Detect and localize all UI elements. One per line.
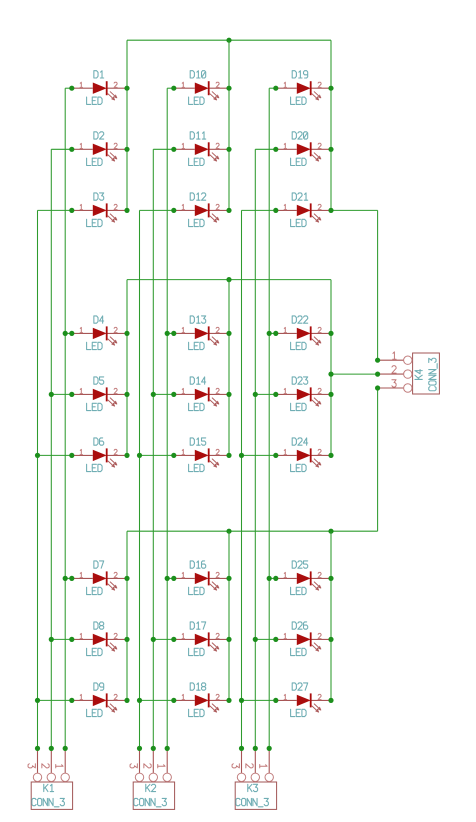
value LED of D3 [87,219,103,226]
wire anode net K1 pin1 [65,88,72,748]
junction anode net K2 pin3 low [137,698,142,703]
LED D20 [276,142,331,161]
pin 2 of D21 [318,204,321,209]
pin dot anode D7 [69,576,74,581]
label D4 [94,316,104,323]
pin dot cathode D14 [226,392,231,397]
pin 2 of D19 [318,82,321,87]
LED D8 [72,632,127,651]
wire dot K2 pin 1 [165,746,170,751]
label D6 [94,438,104,445]
LED D7 [72,571,127,590]
pin 1 of D12 [182,204,184,209]
junction anode net K1 pin3 low [35,698,40,703]
pin 1 of D27 [284,694,286,699]
pin 1 of D25 [284,572,286,577]
pin number 2 of K4 [392,366,396,373]
pin dot anode D24 [273,453,278,458]
pin dot anode D5 [69,392,74,397]
pin dot cathode D7 [124,576,129,581]
wire cathode bus col1 layer3 [126,531,128,700]
LED D3 [72,203,127,222]
pin 3 of K1 [33,748,41,781]
pin dot anode D4 [69,331,74,336]
pin 2 of D10 [216,82,219,87]
LED D27 [276,693,331,712]
value LED of D25 [291,587,307,594]
pin dot anode D27 [273,698,278,703]
value CONN_3 of K2 [134,798,166,806]
wire anode net K2 pin1 [167,88,174,748]
pin dot cathode D24 [328,453,333,458]
value LED of D1 [87,97,103,104]
label K2 [146,784,156,791]
junction anode net K1 pin2 mid [49,392,54,397]
LED D1 [72,81,127,100]
junction anode net K1 pin1 mid [63,331,68,336]
LED D22 [276,326,331,345]
junction layer-1 bus / column-2 [226,38,231,43]
pin number 3 of K3 [232,764,239,768]
LED D13 [174,326,229,345]
pin dot cathode D12 [226,208,231,213]
label D11 [190,132,206,139]
value LED of D15 [189,464,205,471]
pin 1 of D17 [182,633,184,638]
pin dot cathode D17 [226,637,231,642]
pin 1 of D7 [80,572,82,577]
LED D14 [174,387,229,406]
value LED of D21 [291,219,307,226]
LED D15 [174,448,229,467]
wire dot K1 pin 1 [63,746,68,751]
value LED of D5 [87,403,103,410]
LED D19 [276,81,331,100]
wire layer-2 cathode bus [127,279,331,281]
wire anode net K3 pin1 [269,88,276,748]
junction anode net K3 pin2 low [253,637,258,642]
junction anode net K2 pin1 low [165,576,170,581]
wire layer-1 cathode bus [127,39,331,41]
pin 2 of D12 [216,204,219,209]
label D1 [94,71,104,78]
label D15 [190,438,206,445]
pin dot anode D6 [69,453,74,458]
value LED of D19 [291,97,307,104]
label D27 [292,683,308,690]
pin 1 of K3 [265,748,273,781]
LED D21 [276,203,331,222]
wire anode net K1 pin2 [51,149,72,748]
LED D18 [174,693,229,712]
pin 3 of K2 [135,748,143,781]
pin dot cathode D27 [328,698,333,703]
label D21 [292,193,308,200]
label D22 [292,316,308,323]
junction layer-2 bus / column-2 [226,277,231,282]
wire dot K2 pin 2 [151,746,156,751]
LED D9 [72,693,127,712]
wire anode net K3 pin3 [242,210,276,748]
pin 1 of D23 [284,388,286,393]
pin dot cathode D20 [328,147,333,152]
pin 2 of D1 [114,82,117,87]
value LED of D7 [87,587,103,594]
pin 1 of D14 [182,388,184,393]
value LED of D8 [87,648,103,655]
pin dot cathode D4 [124,331,129,336]
pin 3 of K4 [378,384,412,392]
pin dot cathode D2 [124,147,129,152]
pin 1 of D13 [182,327,184,332]
value LED of D12 [189,219,205,226]
wire cathode bus col1 layer1 [126,40,128,210]
junction anode net K2 pin2 mid [151,392,156,397]
value LED of D17 [189,648,205,655]
pin dot anode D8 [69,637,74,642]
label D13 [190,316,206,323]
pin number 1 of K2 [158,765,165,768]
pin 1 of D16 [182,572,184,577]
LED D2 [72,142,127,161]
value LED of D23 [291,403,307,410]
pin dot anode D23 [273,392,278,397]
junction anode net K3 pin3 mid [239,453,244,458]
pin dot cathode D13 [226,331,231,336]
pin dot cathode D9 [124,698,129,703]
pin dot cathode D3 [124,208,129,213]
pin 2 of D4 [114,327,117,332]
value LED of D2 [87,158,103,165]
junction layer-2 branch [328,372,333,377]
wire layer-2 to K4 pin2 [331,373,378,375]
pin dot cathode D11 [226,147,231,152]
pin dot cathode D10 [226,86,231,91]
pin 1 of D10 [182,82,184,87]
pin dot cathode D25 [328,576,333,581]
pin 1 of D11 [182,143,184,148]
pin dot cathode D23 [328,392,333,397]
junction anode net K1 pin2 low [49,637,54,642]
pin 1 of D19 [284,82,286,87]
value LED of D4 [87,342,103,349]
wire anode net K1 pin3 [38,210,72,748]
pin 2 of D25 [318,572,321,577]
wire cathode bus col2 layer3 [228,531,230,700]
value LED of D18 [189,709,205,716]
label D18 [190,683,206,690]
label D16 [190,561,206,568]
pin 2 of D17 [216,633,219,638]
pin 2 of D16 [216,572,219,577]
LED D25 [276,571,331,590]
LED D11 [174,142,229,161]
wire dot K3 pin 2 [253,746,258,751]
LED D26 [276,632,331,651]
value LED of D26 [291,648,307,655]
pin dot anode D18 [171,698,176,703]
label D12 [190,193,206,200]
pin number 1 of K3 [260,765,267,768]
pin 1 of D15 [182,449,184,454]
pin dot cathode D22 [328,331,333,336]
value LED of D20 [291,158,307,165]
label D25 [292,561,308,568]
LED D4 [72,326,127,345]
LED D16 [174,571,229,590]
junction anode net K1 pin1 low [63,576,68,581]
label D24 [292,438,308,445]
wire anode net K2 pin3 [140,210,174,748]
pin dot cathode D5 [124,392,129,397]
LED D10 [174,81,229,100]
pin 1 of K1 [61,748,69,781]
label D23 [292,377,308,384]
value LED of D11 [189,158,205,165]
wire layer-1 to K4 pin1 [331,210,378,360]
wire dot K4 pin 3 [375,385,380,390]
pin dot cathode D1 [124,86,129,91]
LED D5 [72,387,127,406]
connector K1 [31,782,72,809]
pin dot anode D16 [171,576,176,581]
pin 1 of D21 [284,204,286,209]
value LED of D13 [189,342,205,349]
pin dot anode D15 [171,453,176,458]
pin dot anode D11 [171,147,176,152]
pin 1 of D18 [182,694,184,699]
pin 2 of D7 [114,572,117,577]
pin 1 of D1 [80,82,82,87]
pin dot anode D21 [273,208,278,213]
label D7 [94,561,104,568]
value LED of D22 [291,342,307,349]
wire cathode bus col2 layer2 [228,280,230,456]
pin 2 of K4 [378,370,412,378]
pin 1 of D24 [284,449,286,454]
pin 3 of K3 [237,748,245,781]
pin dot anode D12 [171,208,176,213]
junction anode net K2 pin3 mid [137,453,142,458]
label D9 [94,683,104,690]
connector K2 [133,782,174,809]
pin dot cathode D19 [328,86,333,91]
pin 1 of D2 [80,143,82,148]
pin 2 of D15 [216,449,219,454]
wire dot K4 pin 1 [375,358,380,363]
pin dot anode D2 [69,147,74,152]
value LED of D10 [189,97,205,104]
label D17 [190,622,206,629]
value LED of D14 [189,403,205,410]
wire cathode bus col1 layer2 [126,280,128,456]
junction layer-3 bus / column-2 [226,529,231,534]
pin number 3 of K4 [392,380,396,387]
label D26 [292,622,308,629]
label D10 [190,71,206,78]
label D14 [190,377,206,384]
pin 2 of D18 [216,694,219,699]
LED D17 [174,632,229,651]
pin 1 of K4 [378,356,412,364]
pin number 3 of K1 [28,764,35,768]
pin 1 of D4 [80,327,82,332]
wire dot K2 pin 3 [137,746,142,751]
wire dot K3 pin 3 [239,746,244,751]
value LED of D9 [87,709,103,716]
pin number 2 of K2 [144,764,151,768]
pin dot anode D22 [273,331,278,336]
pin 2 of K2 [149,748,157,781]
pin dot cathode D6 [124,453,129,458]
label K4 [415,370,422,380]
pin 2 of D22 [318,327,321,332]
pin number 3 of K2 [130,764,137,768]
wire layer-3 cathode bus [127,530,378,532]
pin 2 of D26 [318,633,321,638]
LED D24 [276,448,331,467]
pin 2 of K1 [47,748,55,781]
junction layer-3 bus / column-3 [328,529,333,534]
wire cathode bus col3 layer1 [330,40,332,210]
pin dot anode D17 [171,637,176,642]
pin dot anode D20 [273,147,278,152]
pin dot anode D10 [171,86,176,91]
pin 2 of D27 [318,694,321,699]
wire dot K1 pin 2 [49,746,54,751]
pin dot cathode D26 [328,637,333,642]
pin dot anode D26 [273,637,278,642]
pin dot anode D25 [273,576,278,581]
pin dot anode D19 [273,86,278,91]
junction anode net K3 pin1 mid [267,331,272,336]
junction anode net K2 pin2 low [151,637,156,642]
label D5 [94,377,104,384]
pin number 1 of K1 [56,765,63,768]
connector K3 [235,782,276,809]
pin number 2 of K1 [42,764,49,768]
pin 1 of D6 [80,449,82,454]
pin 1 of K2 [163,748,171,781]
value LED of D27 [291,709,307,716]
pin dot anode D14 [171,392,176,397]
label K3 [248,784,258,791]
pin dot cathode D18 [226,698,231,703]
pin 1 of D3 [80,204,82,209]
label K1 [44,784,54,791]
value CONN_3 of K3 [236,798,268,806]
wire dot K3 pin 1 [267,746,272,751]
junction anode net K3 pin3 low [239,698,244,703]
pin 2 of D2 [114,143,117,148]
label D3 [94,193,104,200]
pin 1 of D26 [284,633,286,638]
connector K4 [413,353,440,394]
pin 1 of D22 [284,327,286,332]
wire cathode bus col3 layer3 [330,531,332,700]
pin 2 of D23 [318,388,321,393]
wire dot K4 pin 2 [375,372,380,377]
pin number 1 of K4 [393,352,396,359]
value LED of D24 [291,464,307,471]
pin dot anode D3 [69,208,74,213]
pin dot anode D9 [69,698,74,703]
pin 2 of K3 [251,748,259,781]
pin 1 of D9 [80,694,82,699]
junction anode net K1 pin3 mid [35,453,40,458]
pin dot cathode D16 [226,576,231,581]
pin 2 of D9 [114,694,117,699]
pin 2 of D11 [216,143,219,148]
pin 2 of D6 [114,449,117,454]
LED D6 [72,448,127,467]
pin dot anode D13 [171,331,176,336]
wire anode net K3 pin2 [255,149,275,748]
wire layer-3 to K4 pin3 [377,388,379,531]
value CONN_3 of K1 [32,798,64,806]
pin 2 of D8 [114,633,117,638]
pin number 2 of K3 [246,764,253,768]
pin 1 of D5 [80,388,82,393]
junction anode net K3 pin2 mid [253,392,258,397]
pin dot anode D1 [69,86,74,91]
wire anode net K2 pin2 [153,149,174,748]
wire cathode bus col3 layer2 [330,280,332,456]
pin 2 of D13 [216,327,219,332]
value LED of D6 [87,464,103,471]
junction anode net K3 pin1 low [267,576,272,581]
value CONN_3 of K4 [429,358,437,390]
pin dot cathode D21 [328,208,333,213]
pin dot cathode D15 [226,453,231,458]
junction anode net K2 pin1 mid [165,331,170,336]
pin dot cathode D8 [124,637,129,642]
label D19 [292,71,308,78]
pin 2 of D14 [216,388,219,393]
wire cathode bus col2 layer1 [228,40,230,210]
pin 2 of D5 [114,388,117,393]
pin 2 of D20 [318,143,321,148]
label D20 [292,132,308,139]
wire dot K1 pin 3 [35,746,40,751]
pin 1 of D20 [284,143,286,148]
label D2 [94,132,104,139]
pin 2 of D24 [318,449,321,454]
pin 2 of D3 [114,204,117,209]
LED D12 [174,203,229,222]
pin 1 of D8 [80,633,82,638]
label D8 [94,622,104,629]
value LED of D16 [189,587,205,594]
LED D23 [276,387,331,406]
